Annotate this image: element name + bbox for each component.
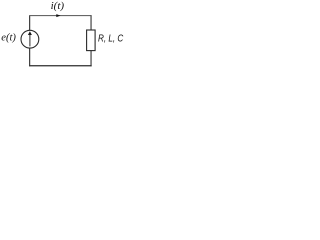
wire: bottom horizontal rail: [29, 65, 92, 67]
source e(t): internal arrow shaft: [29, 34, 31, 46]
wire: top horizontal rail: [29, 15, 92, 17]
source e(t): circle: [21, 30, 39, 48]
svg-text:e(t): e(t): [1, 33, 16, 44]
wire: right vertical, top rail to load: [90, 16, 92, 31]
source e(t): internal arrow head: [28, 31, 32, 35]
svg-text:i(t): i(t): [51, 0, 65, 12]
wire: left vertical, source bottom to bottom rail: [29, 48, 31, 67]
load R,L,C: rectangle: [87, 30, 96, 51]
wire: right vertical, load bottom to bottom rail: [90, 50, 92, 66]
wire: left vertical, source top to top rail: [29, 16, 31, 31]
arrow i(t): current direction arrowhead on top wire: [56, 14, 60, 17]
svg-text:R, L, C: R, L, C: [98, 34, 124, 45]
